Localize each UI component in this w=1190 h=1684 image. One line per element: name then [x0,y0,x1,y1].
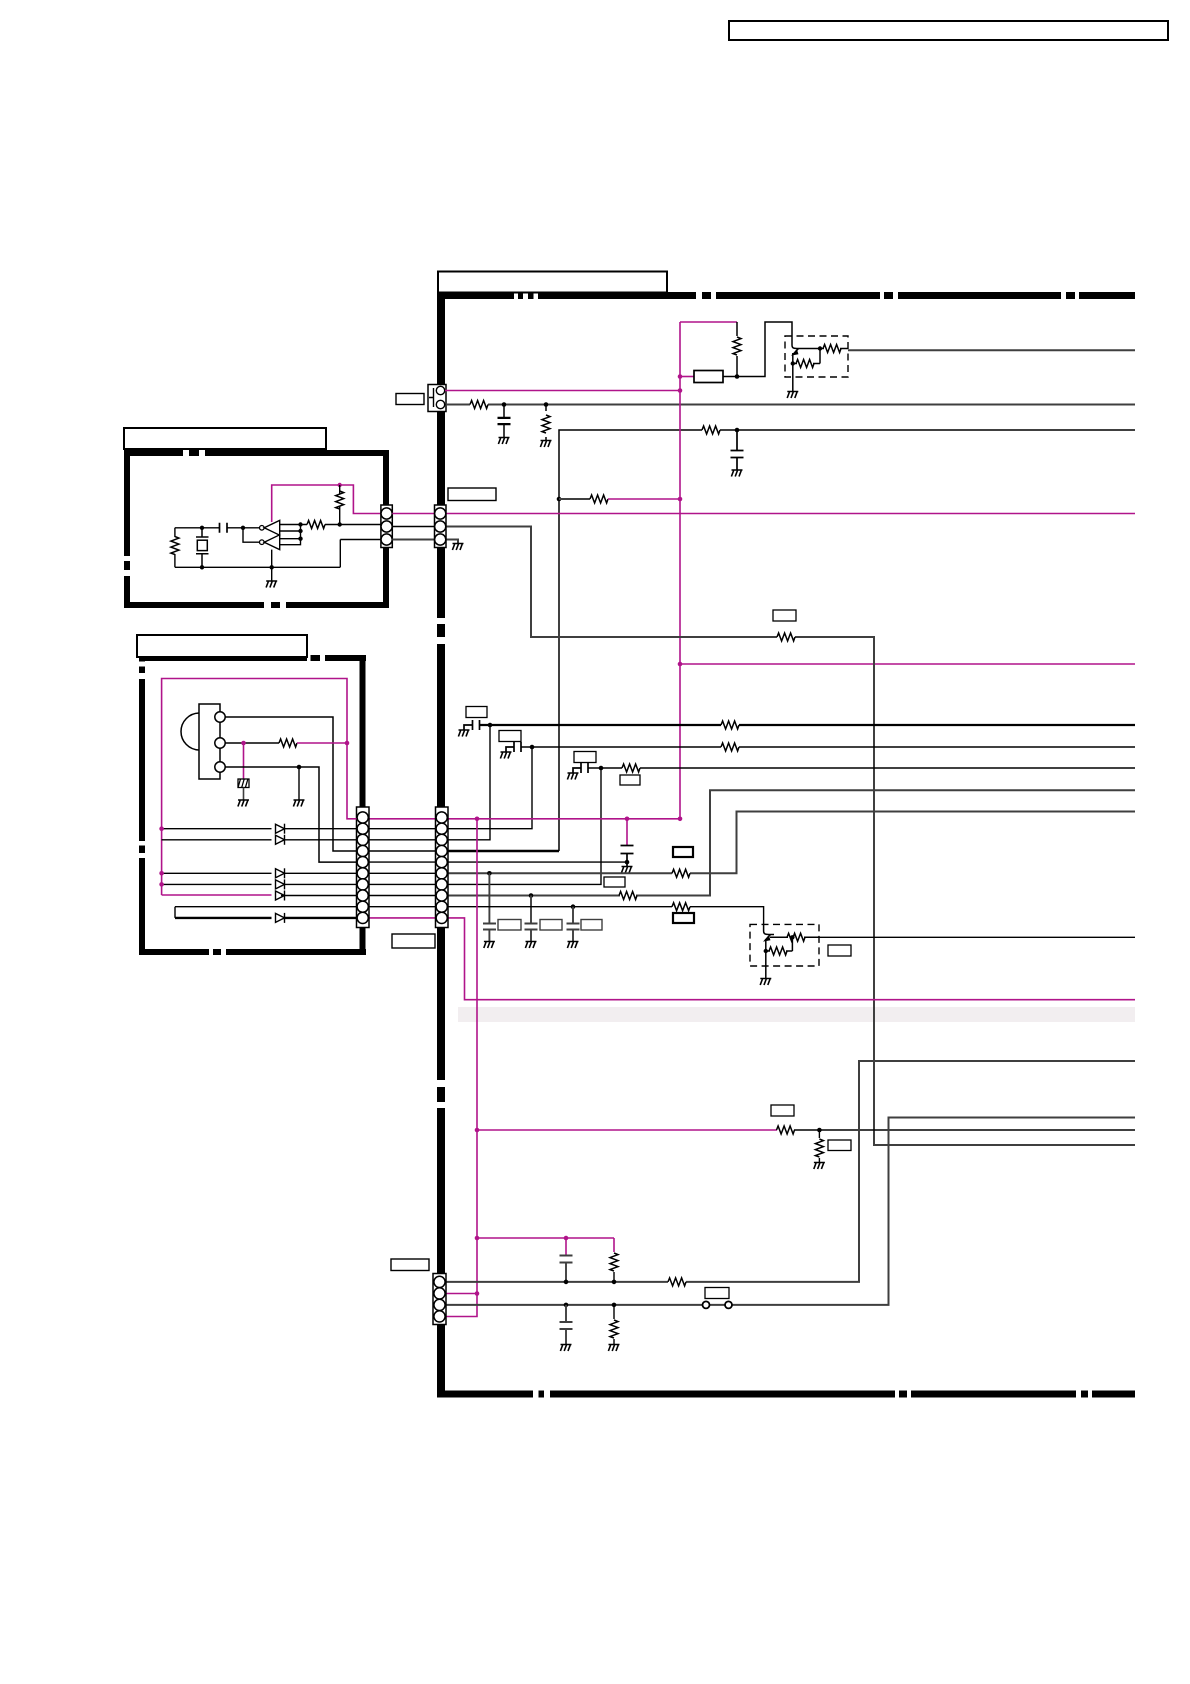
wire: CN3 pin8 row right, up at x=710, to right edge y=790.3 [448,790,1135,895]
node dot [241,526,245,530]
resistor R21 to ground [613,1305,615,1344]
label box for CN4 [391,1259,429,1271]
connector CN3A (10-pin, operation block side) [357,807,370,928]
ground [266,581,277,588]
wires: inverter output ladder [280,525,301,545]
crystal X1 [196,528,209,568]
ground [814,1163,825,1170]
node dot [612,1280,617,1285]
resistor R17 [777,1126,795,1134]
chassis ground (hatched box) [238,779,249,788]
resistor R19 [668,1278,686,1286]
node dot [159,882,164,887]
node dot [564,1303,569,1308]
wire: tap from x=559 through R8 to magenta bus [559,498,590,500]
node dot [200,565,204,569]
capacitor C6 (magenta bus decoupling) [626,819,628,845]
capacitor C11 to ground [560,1305,573,1344]
wire: CN2 pin3 to ground [446,540,458,544]
wire: x=490 down to CN3 pin3 [448,725,490,840]
wire: magenta row y=1130 with resistor to right edge [477,1129,777,1131]
wire (magenta) R8 to bus [608,498,680,500]
node dot [791,361,795,365]
resistor R12 [672,869,690,877]
wire: CN3 pin4 thick row to x=559 [448,850,559,852]
label box [574,752,596,763]
node dot [159,826,164,831]
node dot [678,817,683,822]
node dot [488,723,493,728]
wire: x=532 down to CN3 pin2 [448,747,532,829]
label box [620,775,640,785]
wire: magenta vertical x=477 from bus to CN4 [446,819,477,1317]
capacitor C3 with ground tap [464,720,480,730]
node dot [338,483,342,487]
label box for CN3 [392,934,435,948]
label box (thick) [673,913,694,923]
wire: osc output row y=524.5 [301,524,382,526]
node dot [530,745,535,750]
wire: R17 to right edge [794,1129,1135,1131]
node dot [564,1236,569,1241]
oscillator block border (chain-dashed) [124,450,389,608]
capacitor C5 with ground tap [573,763,588,773]
label box for CN1 [396,394,424,405]
capacitor C9 to ground [567,907,580,941]
resistor R1 [470,401,488,409]
oscillator block title box [124,428,326,449]
ground [608,1345,619,1352]
faint scan bleed band [458,1007,1135,1022]
label box [540,920,562,931]
node dot [502,402,507,407]
node dot [571,904,576,909]
wire: CN3 pin10 (magenta) down and right to edge y=999.7 [448,918,1135,1000]
ground [458,730,469,737]
wire: CN3 pin5 row to ground/cap node [448,861,627,863]
magenta top link to R5 [680,321,737,323]
wire: CN2 pin2 black down to row 637 then right, down at x=874, right at y=1145 [446,527,1135,1146]
wire: osc left branch with resistor [174,528,176,568]
label box [466,707,487,718]
ground [787,392,798,399]
node dot [487,871,492,876]
resistor R3 [702,426,720,434]
ground [760,979,771,986]
capacitor C4 with ground tap [506,742,521,752]
resistor R20 (magenta to CN4 pin1 row) [613,1238,615,1252]
label box [499,731,521,742]
label box [604,877,625,887]
wire: feedback loop (magenta) [272,485,381,522]
wire: pin3 ground tap [298,767,300,800]
magenta vertical bus x=680 [679,322,681,819]
node dot [200,526,204,530]
resistor R24 [307,521,325,529]
operation/sensor block border (chain-dashed) [139,655,366,955]
node dot [564,1280,569,1285]
resistor R11 [622,764,640,772]
node dot [345,741,350,746]
node dot [241,741,246,746]
dashed outline around Q1 [785,336,848,377]
wire: magenta supply loop in operation block [162,679,357,896]
resistor R14 [672,903,690,911]
wire: osc ground rail y=567.3 [175,540,381,568]
wire FB1 output up and over to Q1 [723,322,792,377]
connector CN2 (3-pin, main board side) [435,505,447,548]
node dot [612,1303,617,1308]
node dot [678,497,683,502]
resistor R7 (internal) [796,360,814,368]
label box [581,920,602,931]
node dot [557,497,562,502]
wire: row y=747 to right edge [521,746,1135,748]
wire: sensor pin3 to CN3A pin5 [225,767,356,862]
wire: CN4 pin1 row (gray) right, up at x=859, right edge y=1061 [446,1061,1135,1282]
wire: osc top node y=527.8 [175,527,260,529]
wire: magenta feed to right edge y=664 [680,663,1135,665]
inverter U1A bubble [260,526,265,531]
node dot [735,374,740,379]
ground [731,470,742,477]
node dot [818,346,822,350]
wire: key row pin2 [162,828,357,830]
jumper link JP1 (open circles) on pin3 row [703,1301,710,1308]
wire: pin10 thick row [175,917,357,919]
node dot [297,765,302,770]
connector CN2A (3-pin, osc side) [381,505,392,548]
wire: Q1 output to right edge (gray) [848,349,1135,351]
diode D1 [276,824,285,834]
node dot [544,402,549,407]
connector CN1 (2-pin, on main border) [428,385,446,412]
label box [705,1288,729,1299]
ground [621,867,632,874]
inverter U1A [264,520,280,535]
inverter U1B bubble [260,540,265,545]
node dot [475,1128,480,1133]
diode D3 [276,868,285,878]
diode D6 [276,913,285,923]
capacitor C8 to ground [525,896,538,942]
wires: CN2A-CN2 links [392,513,434,515]
diode D5 [276,891,285,901]
node dot [159,871,164,876]
resistor R9 [721,721,739,729]
wire: chassis gnd to signal gnd [243,788,245,800]
wire: pin10 link (magenta) [369,917,436,919]
ground [452,544,463,551]
inverter U1B [264,535,280,550]
node dot [625,817,630,822]
label box (thick) [673,847,693,857]
wire: CN1 pin1 net (magenta) [445,390,680,392]
node dot [298,537,302,541]
diode D2 [276,835,285,845]
node dot [764,949,768,953]
top-right title box [729,21,1168,40]
main block title box [438,272,667,293]
ground [500,752,511,759]
label box [828,945,851,956]
ground [293,800,304,807]
IR remote sensor RM1 [181,704,225,779]
wire: key row pin6 [162,872,357,874]
node dot [475,1236,480,1241]
resistor R13 [619,892,637,900]
wire: row y=725 (thick) to right edge [480,724,1136,726]
label box [773,610,796,621]
ground [525,942,536,949]
wire: key row pin7 [162,883,357,885]
resistor R5 (vertical) [736,322,738,376]
node dot [678,388,683,393]
capacitor C10 (magenta to CN4 pin1 row) [565,1238,567,1255]
wire: black net y=430 going right and down to CN3 pin4 [559,430,1135,851]
wire: magenta branch y=1238 [477,1237,614,1239]
main digital board block border (chain-dashed) [437,292,1135,1398]
node dot [298,522,302,526]
resistor R10 [721,743,739,751]
wire: magenta to chassis ground [243,743,245,779]
resistor R8 [590,495,608,503]
connector CN3 (10-pin, main board side) [436,807,449,928]
capacitor C1 [498,405,511,438]
wire (magenta) R22 to loop [297,742,347,744]
resistor R2 (to ground) [545,405,547,441]
ground [560,1345,571,1352]
connector CN4 (4-pin, on main border) [433,1274,446,1325]
diode D4 [276,879,285,889]
ground [540,441,551,448]
resistor R25 (feedback) [339,485,341,525]
ferrite bead / component box FB1 [680,376,694,378]
label box [498,920,521,931]
wire: loop rows pin9/pin10 [175,907,357,918]
node dot [735,428,740,433]
wire: sensor pin2 row with resistor [225,742,279,744]
label box for CN2 [448,488,496,501]
node dot [529,893,534,898]
wire: x=601 down to CN3 pin7 [448,768,601,884]
capacitor C7 to ground (below pin6 node) [483,873,496,941]
wire: magenta bus y=818.8 between connectors and to x=680 [369,818,680,820]
wire: D5 to CN3A pin8 [281,895,357,897]
label box [828,1140,851,1151]
transistor Q2 (digital transistor) [764,924,819,978]
wire: CN3 pin6 row (gray) right, up at x=736.5, to right edge y=811.5 [448,812,1135,874]
node dot [475,1291,480,1296]
wire: key row pin3 [162,839,357,841]
capacitor C2 [731,430,744,470]
ground [567,773,578,780]
node dot [338,522,342,526]
node dot [298,529,302,533]
wire: to inverter inputs [243,528,260,542]
operation/sensor block title box [137,635,307,657]
dashed outline around Q2 [750,924,819,966]
node dot [817,1128,822,1133]
capacitor C12 [220,523,228,533]
ground [238,800,249,807]
wire: Q2 output to right edge y=937.3 [819,936,1135,938]
wire: row y=768 to right edge [588,767,1135,769]
wire: CN4 pin3 row (gray) right, up at x=888.5, right edge y=1117.5 [446,1118,1135,1305]
wires: CN3A-CN3 pins 2-9 links [369,829,436,907]
resistor R16 (internal) [769,947,787,955]
wire: key row pin8 (magenta feed) [162,894,272,896]
resistor R23 [171,537,179,555]
label box [771,1105,794,1116]
ground [567,942,578,949]
resistor R18 (to ground) [818,1130,820,1162]
node dot [678,374,683,379]
resistor R4 [777,633,795,641]
node dot [790,935,794,939]
node dot [599,766,604,771]
resistor R22 [279,739,297,747]
node dot [475,817,480,822]
node dot [625,860,630,865]
resistor R15 (base) [787,933,805,941]
transistor Q1 (digital transistor) [792,345,848,391]
node dot [678,662,683,667]
wire: sensor pin1 to CN3A pin4 [225,717,356,851]
node dot [270,565,274,569]
ground [484,942,495,949]
wire: oscillator out (magenta) to right edge y=513.5 [446,513,1135,515]
wire: CN3 pin9 row right to Q2 [448,907,764,925]
resistor R6 (base) [823,345,841,353]
wire: CN1 pin2 net (gray) with resistor gap [446,404,1135,406]
ground [498,438,509,445]
wire: U1B to rail [271,550,273,581]
